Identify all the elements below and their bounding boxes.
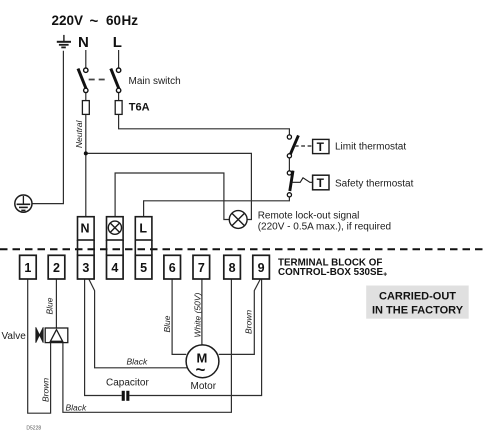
- svg-text:D5228: D5228: [26, 425, 41, 431]
- svg-text:1: 1: [24, 261, 31, 275]
- svg-text:Hz: Hz: [122, 13, 139, 28]
- svg-text:Valve: Valve: [2, 331, 27, 342]
- svg-text:N: N: [78, 34, 89, 51]
- svg-text:8: 8: [229, 261, 236, 275]
- svg-text:60: 60: [106, 13, 121, 28]
- svg-text:7: 7: [198, 261, 205, 275]
- svg-text:Remote lock-out signal: Remote lock-out signal: [258, 210, 360, 221]
- svg-text:Capacitor: Capacitor: [106, 378, 149, 389]
- svg-text:Motor: Motor: [191, 381, 217, 392]
- svg-text:IN THE FACTORY: IN THE FACTORY: [372, 305, 464, 317]
- svg-text:CONTROL-BOX 530SE+: CONTROL-BOX 530SE+: [278, 267, 387, 279]
- svg-text:Black: Black: [127, 357, 149, 367]
- svg-text:~: ~: [196, 360, 206, 379]
- svg-text:(220V - 0.5A max.), if require: (220V - 0.5A max.), if required: [258, 222, 391, 233]
- svg-text:Brown: Brown: [244, 310, 254, 334]
- svg-text:9: 9: [258, 261, 265, 275]
- svg-text:L: L: [113, 34, 122, 51]
- svg-text:Main switch: Main switch: [129, 76, 181, 87]
- svg-text:5: 5: [140, 261, 147, 275]
- svg-text:220V: 220V: [52, 13, 84, 28]
- svg-text:N: N: [80, 222, 89, 236]
- svg-text:T: T: [317, 140, 325, 154]
- svg-text:6: 6: [169, 261, 176, 275]
- svg-text:Neutral: Neutral: [74, 119, 84, 148]
- svg-text:Limit thermostat: Limit thermostat: [335, 142, 406, 153]
- svg-text:4: 4: [111, 261, 118, 275]
- svg-text:2: 2: [53, 261, 60, 275]
- svg-text:Black: Black: [66, 403, 88, 413]
- svg-text:~: ~: [90, 13, 99, 30]
- svg-text:3: 3: [82, 261, 89, 275]
- svg-text:T6A: T6A: [129, 102, 150, 114]
- svg-text:T: T: [317, 176, 325, 190]
- svg-text:L: L: [139, 222, 147, 236]
- svg-text:Safety thermostat: Safety thermostat: [335, 179, 414, 190]
- svg-text:Blue: Blue: [45, 297, 55, 314]
- svg-text:Blue: Blue: [162, 315, 172, 332]
- svg-text:Brown: Brown: [41, 378, 51, 402]
- svg-text:White (50V): White (50V): [193, 292, 203, 337]
- svg-text:CARRIED-OUT: CARRIED-OUT: [379, 291, 456, 303]
